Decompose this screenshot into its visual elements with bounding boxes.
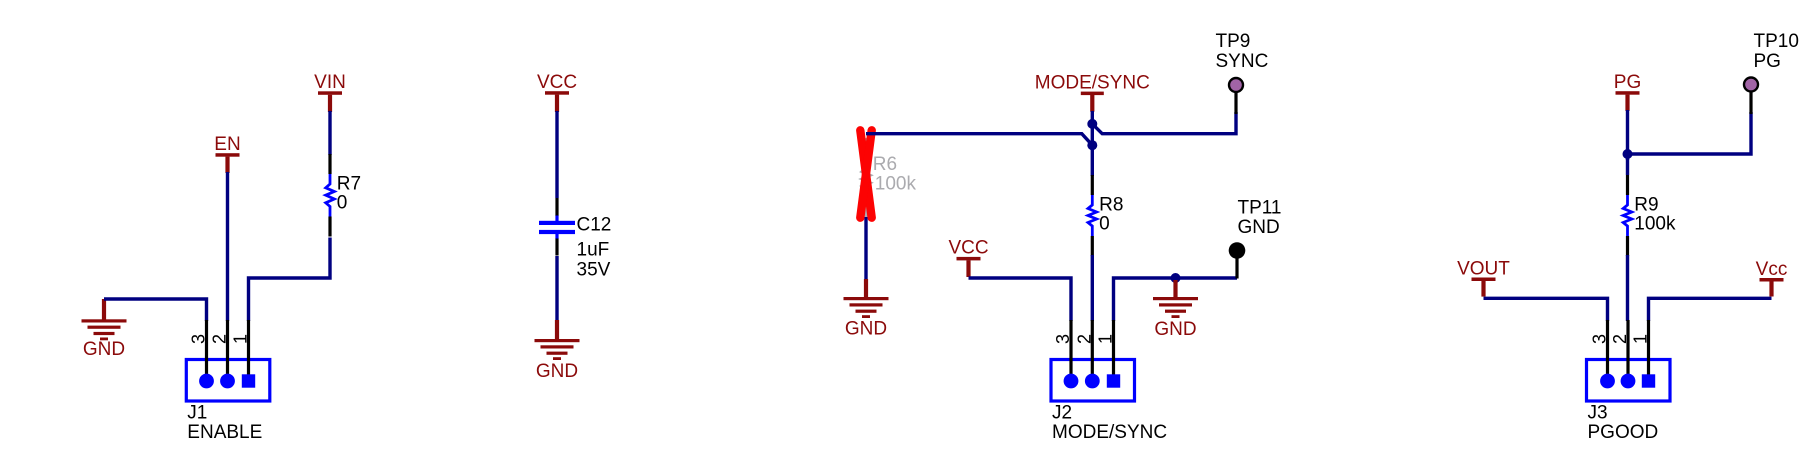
svg-text:1: 1 <box>1631 334 1651 344</box>
wire C12 to GND <box>555 256 558 322</box>
wire R6 to GND <box>864 217 867 281</box>
svg-text:MODE/SYNC: MODE/SYNC <box>1035 72 1150 93</box>
svg-text:TP9: TP9 <box>1216 31 1251 52</box>
resistor R8 <box>1088 175 1123 256</box>
wire R7 to J1 pin 1 <box>249 238 331 322</box>
wire EN to J1 pin 2 <box>226 172 229 321</box>
svg-text:PG: PG <box>1614 72 1641 93</box>
connector J1 (ENABLE) <box>186 360 269 402</box>
J1 pin 1 <box>231 320 256 388</box>
J2 pin 2 <box>1074 320 1099 388</box>
svg-text:0: 0 <box>1099 214 1110 235</box>
svg-text:R7: R7 <box>337 174 361 195</box>
svg-text:TP10: TP10 <box>1754 31 1799 52</box>
wire R8 to J2 pin 2 <box>1091 255 1094 321</box>
svg-text:3: 3 <box>189 334 209 344</box>
ground GND (C12) <box>535 320 580 382</box>
J2 pin 3 <box>1053 320 1078 388</box>
svg-text:100k: 100k <box>1634 214 1676 235</box>
resistor R7 <box>326 154 361 237</box>
port MODE/SYNC <box>1035 72 1150 111</box>
svg-text:100k: 100k <box>875 174 917 195</box>
test point TP9 (SYNC) <box>1216 31 1269 114</box>
wire MODE/SYNC vertical <box>1091 111 1094 176</box>
svg-text:VCC: VCC <box>948 238 988 259</box>
J3 pin 1 <box>1631 320 1656 388</box>
wire VCC to C12 <box>555 111 558 198</box>
wire Vcc to J3 pin 1 <box>1649 298 1772 321</box>
svg-text:2: 2 <box>1610 334 1630 344</box>
svg-text:TP11: TP11 <box>1238 198 1282 219</box>
wire VIN to R7 <box>328 111 331 155</box>
svg-text:VCC: VCC <box>537 72 577 93</box>
wire GND to J1 pin 3 <box>104 299 207 321</box>
svg-text:PG: PG <box>1754 51 1781 72</box>
svg-text:EN: EN <box>214 134 240 155</box>
wire J2 pin 1 to TP11 <box>1114 278 1238 321</box>
J3 pin 3 <box>1590 320 1615 388</box>
port VIN <box>314 72 346 112</box>
J2 pin 1 <box>1096 320 1121 388</box>
port VOUT <box>1457 258 1510 296</box>
junction MODE/SYNC lower <box>1087 140 1097 150</box>
port Vcc <box>1756 259 1788 297</box>
svg-text:1: 1 <box>231 334 251 344</box>
svg-text:PGOOD: PGOOD <box>1588 422 1659 443</box>
svg-text:2: 2 <box>1074 334 1094 344</box>
resistor R9 <box>1623 175 1658 256</box>
port VCC <box>537 72 577 112</box>
svg-text:GND: GND <box>1238 217 1280 238</box>
svg-text:MODE/SYNC: MODE/SYNC <box>1052 422 1167 443</box>
svg-text:GND: GND <box>845 319 887 340</box>
svg-text:R6: R6 <box>873 154 897 175</box>
connector J3 (PGOOD) <box>1587 360 1671 402</box>
no-fit cross over R6 <box>860 130 871 217</box>
J1 pin 3 <box>189 320 214 388</box>
wire junction to R9 <box>1626 154 1629 175</box>
svg-text:GND: GND <box>536 361 578 382</box>
junction GND tap <box>1171 273 1181 283</box>
resistor R6 (not fitted) <box>862 138 897 220</box>
test point TP10 (PG) <box>1744 31 1799 114</box>
svg-text:SYNC: SYNC <box>1216 51 1269 72</box>
port VCC (J2) <box>948 238 988 277</box>
junction MODE/SYNC upper <box>1087 119 1097 129</box>
wire R6 to MODE/SYNC <box>866 134 1092 146</box>
svg-text:J2: J2 <box>1052 403 1072 424</box>
svg-text:R8: R8 <box>1099 195 1123 216</box>
ground GND (J1) <box>82 299 127 360</box>
connector J2 (MODE/SYNC) <box>1051 360 1135 402</box>
svg-text:GND: GND <box>83 339 125 360</box>
test point TP11 (GND) <box>1229 198 1282 279</box>
svg-text:J3: J3 <box>1588 403 1608 424</box>
port EN <box>214 134 240 173</box>
ground GND (R6) <box>844 279 889 340</box>
J3 pin 2 <box>1610 320 1635 388</box>
junction PG node <box>1623 149 1633 159</box>
svg-text:GND: GND <box>1154 319 1196 340</box>
svg-text:2: 2 <box>210 334 230 344</box>
wire VCC to J2 pin 3 <box>969 278 1072 321</box>
wire MODE/SYNC to TP9 <box>1092 112 1236 134</box>
svg-text:0: 0 <box>337 193 348 214</box>
svg-text:VOUT: VOUT <box>1457 258 1510 279</box>
svg-text:VIN: VIN <box>314 72 346 93</box>
ground GND (TP11) <box>1153 280 1198 340</box>
svg-text:C12: C12 <box>577 215 612 236</box>
wire junction to TP10 <box>1628 112 1752 154</box>
svg-text:Vcc: Vcc <box>1756 259 1788 280</box>
svg-text:1uF: 1uF <box>577 239 610 260</box>
wire PG to junction <box>1626 110 1629 160</box>
wire VOUT to J3 pin 3 <box>1484 298 1608 321</box>
svg-text:3: 3 <box>1590 334 1610 344</box>
svg-text:R9: R9 <box>1634 195 1658 216</box>
svg-text:1: 1 <box>1096 334 1116 344</box>
J1 pin 2 <box>210 320 235 388</box>
port PG <box>1614 72 1641 111</box>
svg-text:35V: 35V <box>577 259 611 280</box>
svg-text:J1: J1 <box>187 403 207 424</box>
wire R9 to J3 pin 2 <box>1626 255 1629 321</box>
svg-text:3: 3 <box>1053 334 1073 344</box>
svg-text:ENABLE: ENABLE <box>187 422 262 443</box>
capacitor C12 <box>539 198 611 256</box>
